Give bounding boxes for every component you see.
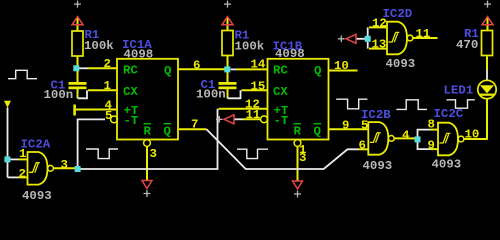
- svg-text:-T: -T: [124, 114, 139, 128]
- svg-text:6: 6: [193, 59, 200, 73]
- svg-text:RC: RC: [273, 64, 288, 78]
- svg-text:4: 4: [402, 129, 410, 143]
- svg-text:4093: 4093: [432, 158, 462, 172]
- svg-text:IC2C: IC2C: [434, 107, 464, 121]
- svg-text:CX: CX: [273, 85, 288, 99]
- svg-text:100n: 100n: [44, 88, 74, 102]
- svg-text:Q: Q: [164, 125, 172, 139]
- svg-text:14: 14: [251, 58, 266, 72]
- svg-text:2: 2: [104, 57, 111, 71]
- svg-text:3: 3: [61, 158, 68, 172]
- svg-text:3: 3: [299, 151, 306, 165]
- svg-text:Q: Q: [314, 125, 322, 139]
- svg-text:CX: CX: [123, 85, 138, 99]
- svg-text:-T: -T: [274, 114, 289, 128]
- svg-text:13: 13: [372, 38, 387, 52]
- svg-text:12: 12: [372, 17, 387, 31]
- svg-text:4098: 4098: [124, 48, 154, 62]
- svg-text:15: 15: [251, 80, 266, 94]
- svg-text:9: 9: [428, 139, 435, 153]
- svg-text:11: 11: [246, 108, 261, 122]
- svg-text:3: 3: [150, 147, 157, 161]
- svg-text:8: 8: [428, 118, 435, 132]
- svg-text:Q: Q: [314, 64, 322, 78]
- svg-text:R: R: [294, 125, 302, 139]
- svg-text:10: 10: [465, 128, 480, 142]
- svg-text:11: 11: [416, 27, 431, 41]
- svg-text:RC: RC: [123, 64, 138, 78]
- svg-text:4098: 4098: [275, 47, 305, 61]
- svg-text:100k: 100k: [235, 40, 265, 54]
- svg-text:10: 10: [334, 59, 349, 73]
- svg-text:5: 5: [361, 119, 368, 133]
- svg-text:Q: Q: [164, 64, 172, 78]
- svg-text:2: 2: [19, 167, 26, 181]
- svg-text:100n: 100n: [196, 88, 226, 102]
- svg-text:IC2D: IC2D: [383, 7, 413, 21]
- svg-text:100k: 100k: [84, 39, 114, 53]
- svg-text:5: 5: [105, 109, 112, 123]
- svg-text:7: 7: [191, 118, 198, 132]
- svg-text:4093: 4093: [386, 57, 416, 71]
- svg-text:470: 470: [456, 38, 478, 52]
- svg-text:R: R: [144, 125, 152, 139]
- svg-text:1: 1: [19, 147, 26, 161]
- svg-text:9: 9: [342, 119, 349, 133]
- svg-text:6: 6: [359, 139, 366, 153]
- svg-text:4093: 4093: [363, 159, 393, 173]
- svg-text:1: 1: [104, 79, 111, 93]
- svg-text:LED1: LED1: [444, 84, 474, 98]
- svg-text:4093: 4093: [22, 189, 52, 200]
